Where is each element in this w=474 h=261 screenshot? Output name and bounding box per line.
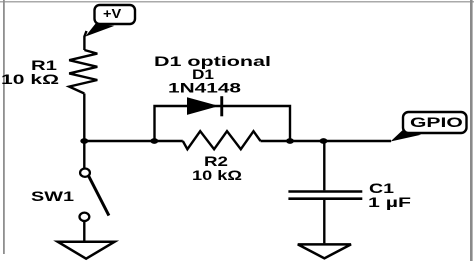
svg-text:10 kΩ: 10 kΩ — [192, 167, 242, 183]
svg-text:+V: +V — [103, 6, 122, 21]
svg-text:1 µF: 1 µF — [368, 194, 412, 210]
svg-text:10 kΩ: 10 kΩ — [1, 71, 59, 87]
svg-text:SW1: SW1 — [31, 188, 74, 204]
svg-text:GPIO: GPIO — [410, 115, 463, 130]
svg-text:1N4148: 1N4148 — [168, 80, 241, 96]
